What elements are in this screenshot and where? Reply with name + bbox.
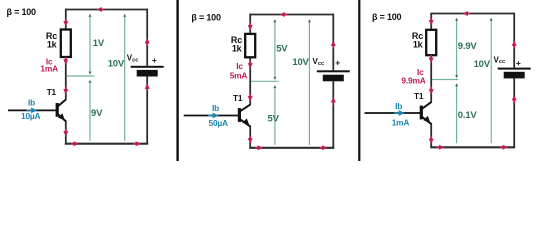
measure connector at collector node (panel 1)	[67, 75, 95, 77]
wire right lower from battery (panel 3)	[513, 78, 515, 147]
current arrow down on emitter wire (panel 2)	[248, 136, 253, 144]
current arrow right on bottom wire left (panel 1)	[71, 141, 79, 146]
wire left upper / Rc top lead (panel 2)	[249, 14, 251, 35]
svg-text:0.1V: 0.1V	[458, 110, 478, 121]
measure arrowhead up Vrc (panel 3)	[455, 18, 458, 21]
svg-text:+: +	[152, 55, 157, 65]
svg-text:5V: 5V	[268, 114, 280, 125]
wire right upper to battery (panel 1)	[146, 9, 148, 66]
current arrow right on bottom wire right (panel 1)	[133, 141, 141, 146]
measure arrowhead up Vce (panel 3)	[455, 83, 458, 86]
current arrow up below battery (panel 1)	[145, 84, 150, 92]
wire collector lead (panel 2)	[249, 56, 251, 104]
wire right upper to battery (panel 3)	[513, 13, 515, 68]
transistor T1 base bar (panel 1)	[56, 103, 59, 117]
measure arrowhead up Vce (panel 1)	[89, 80, 92, 83]
battery Vcc negative plate (panel 2)	[323, 75, 344, 82]
wire emitter lead (panel 2)	[249, 127, 251, 148]
svg-text:10V: 10V	[474, 59, 491, 70]
wire base lead (panel 3)	[365, 112, 421, 114]
measure connector at collector node (panel 2)	[251, 80, 278, 82]
current arrow down into collector (panel 3)	[429, 87, 434, 95]
base current arrow Ib (panel 2)	[208, 113, 219, 119]
current arrow up above battery (panel 1)	[145, 38, 150, 46]
battery Vcc positive plate (panel 1)	[131, 66, 164, 68]
wire base lead (panel 2)	[184, 115, 239, 117]
wire bottom (panel 1)	[65, 143, 148, 145]
svg-text:5mA: 5mA	[230, 70, 248, 80]
current arrow down on emitter wire (panel 3)	[429, 136, 434, 144]
measure arrowhead up Vrc (panel 2)	[273, 19, 276, 22]
current arrow down below resistor Ic (panel 2)	[248, 61, 253, 69]
wire emitter lead (panel 1)	[65, 121, 67, 143]
measure line Vce vertical (panel 1)	[89, 82, 91, 141]
panel divider 1	[176, 0, 178, 161]
current arrow right on bottom wire left (panel 2)	[255, 145, 263, 150]
svg-text:T1: T1	[47, 87, 57, 97]
svg-text:1V: 1V	[93, 38, 105, 49]
svg-text:1mA: 1mA	[40, 64, 58, 74]
svg-text:10V: 10V	[292, 57, 309, 68]
transistor T1 collector stroke (panel 3)	[422, 102, 431, 109]
svg-text:+: +	[516, 58, 521, 68]
wire right upper to battery (panel 2)	[332, 14, 334, 71]
svg-text:β = 100: β = 100	[7, 7, 37, 17]
svg-text:1k: 1k	[232, 43, 243, 53]
measure line Vcc vertical (panel 1)	[124, 15, 126, 141]
transistor T1 emitter stroke (panel 2)	[240, 120, 250, 127]
transistor T1 emitter arrowhead (panel 1)	[58, 113, 65, 120]
wire top (panel 2)	[250, 14, 333, 16]
svg-text:Vcc: Vcc	[313, 57, 325, 67]
base current arrow Ib (panel 1)	[27, 108, 38, 114]
svg-text:9.9mA: 9.9mA	[401, 76, 425, 86]
current arrow down into collector (panel 2)	[248, 94, 253, 102]
current arrow left on top wire (panel 2)	[280, 12, 288, 17]
measure line Vcc vertical (panel 2)	[308, 20, 310, 145]
current arrow left on top wire (panel 1)	[97, 7, 105, 12]
transistor T1 emitter stroke (panel 1)	[58, 115, 66, 122]
wire emitter lead (panel 3)	[430, 124, 432, 147]
transistor T1 base bar (panel 2)	[238, 108, 241, 122]
svg-text:T1: T1	[414, 91, 424, 101]
measure arrowhead down Vrc (panel 2)	[273, 77, 276, 80]
current arrow up above battery (panel 2)	[331, 41, 336, 49]
svg-text:50µA: 50µA	[209, 118, 229, 128]
base current arrow Ib (panel 3)	[394, 110, 405, 116]
panel divider 2	[358, 0, 360, 161]
wire top (panel 1)	[66, 9, 147, 11]
current arrow right on bottom wire right (panel 2)	[320, 145, 328, 150]
svg-text:5V: 5V	[276, 44, 288, 55]
wire bottom (panel 2)	[249, 147, 334, 149]
transistor T1 collector stroke (panel 2)	[240, 104, 250, 111]
transistor T1 emitter stroke (panel 3)	[422, 117, 431, 124]
svg-text:Ib: Ib	[212, 103, 219, 113]
battery Vcc negative plate (panel 1)	[137, 70, 158, 77]
svg-text:10µA: 10µA	[21, 111, 41, 121]
measure arrowhead up Vcc line (panel 1)	[123, 14, 126, 17]
current arrow down into collector (panel 1)	[63, 87, 68, 95]
svg-text:1mA: 1mA	[392, 117, 410, 127]
measure connector at collector node (panel 3)	[432, 79, 458, 81]
wire collector lead (panel 3)	[430, 54, 432, 102]
svg-text:1k: 1k	[47, 40, 58, 50]
measure line Vrc vertical (panel 2)	[274, 20, 276, 78]
svg-text:+: +	[335, 58, 340, 68]
current arrow up above battery (panel 3)	[512, 41, 517, 49]
resistor Rc 1k (panel 1)	[61, 30, 71, 58]
current arrow down below top-left corner (panel 1)	[63, 19, 68, 27]
current arrow up below battery (panel 2)	[331, 97, 336, 105]
wire right lower from battery (panel 1)	[146, 77, 148, 144]
resistor Rc 1k (panel 3)	[426, 30, 436, 55]
wire collector lead (panel 1)	[65, 56, 67, 99]
current arrow down below top-left corner (panel 3)	[429, 18, 434, 26]
current arrow down below top-left corner (panel 2)	[248, 23, 253, 31]
wire bottom (panel 3)	[430, 146, 515, 148]
svg-text:9.9V: 9.9V	[458, 41, 478, 52]
wire left upper / Rc top lead (panel 1)	[65, 9, 67, 31]
measure line Vce vertical (panel 2)	[274, 87, 276, 145]
svg-text:Ib: Ib	[395, 101, 402, 111]
svg-text:Ib: Ib	[28, 97, 35, 107]
measure arrowhead down Vrc (panel 3)	[455, 75, 458, 78]
svg-text:1k: 1k	[413, 39, 424, 49]
svg-text:T1: T1	[233, 93, 243, 103]
wire base lead (panel 1)	[8, 109, 56, 111]
current arrow down below resistor Ic (panel 1)	[63, 57, 68, 65]
battery Vcc positive plate (panel 3)	[498, 68, 531, 70]
measure arrowhead up Vce (panel 2)	[273, 85, 276, 88]
measure line Vcc vertical (panel 3)	[490, 19, 492, 143]
svg-text:9V: 9V	[91, 108, 103, 119]
wire left upper / Rc top lead (panel 3)	[430, 13, 432, 31]
measure line Vce vertical (panel 3)	[456, 85, 458, 143]
current arrow up below battery (panel 3)	[512, 95, 517, 103]
resistor Rc 1k (panel 2)	[245, 34, 255, 57]
wire top (panel 3)	[431, 13, 514, 15]
transistor T1 base bar (panel 3)	[420, 106, 423, 120]
wire right lower from battery (panel 2)	[332, 81, 334, 148]
measure arrowhead up Vrc (panel 1)	[89, 14, 92, 17]
battery Vcc positive plate (panel 2)	[317, 70, 350, 72]
transistor T1 emitter arrowhead (panel 3)	[423, 116, 430, 123]
svg-text:Vcc: Vcc	[127, 54, 139, 64]
transistor T1 emitter arrowhead (panel 2)	[242, 118, 249, 125]
svg-text:Vcc: Vcc	[494, 55, 506, 65]
current arrow right on bottom wire left (panel 3)	[437, 145, 445, 150]
svg-text:β = 100: β = 100	[372, 12, 402, 22]
measure line Vrc vertical (panel 3)	[456, 19, 458, 77]
battery Vcc negative plate (panel 3)	[504, 72, 525, 79]
measure arrowhead down Vrc (panel 1)	[89, 72, 92, 75]
svg-text:β = 100: β = 100	[191, 13, 221, 23]
current arrow down below resistor Ic (panel 3)	[429, 55, 434, 63]
current arrow down on emitter wire (panel 1)	[63, 129, 68, 137]
transistor T1 collector stroke (panel 1)	[58, 99, 66, 106]
measure arrowhead up Vcc line (panel 2)	[308, 19, 311, 22]
measure line Vrc vertical (panel 1)	[89, 15, 91, 74]
current arrow right on bottom wire right (panel 3)	[500, 145, 508, 150]
current arrow left on top wire (panel 3)	[463, 11, 471, 16]
measure arrowhead up Vcc line (panel 3)	[490, 18, 493, 21]
svg-text:10V: 10V	[108, 58, 125, 69]
